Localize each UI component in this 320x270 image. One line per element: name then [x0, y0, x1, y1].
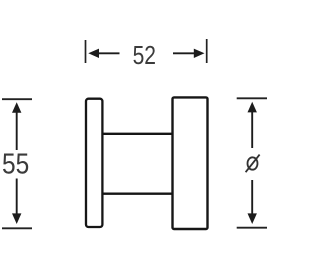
svg-text:52: 52	[133, 41, 156, 71]
knob body rectangle (side view)	[173, 97, 208, 229]
wire dimension 55 up arrow	[12, 102, 21, 150]
diameter dimension down arrow	[248, 180, 257, 224]
wire dimension 52 right arrow	[173, 49, 205, 58]
wire stem bottom line	[102, 192, 173, 194]
wire dimension 52 left arrow	[88, 49, 119, 58]
diameter dimension top extension tick	[237, 97, 267, 99]
diameter dimension up arrow	[248, 102, 257, 148]
wire dimension 52 left extension tick	[85, 40, 87, 63]
wire dimension 52 right extension tick	[206, 39, 208, 63]
diameter dimension bottom extension tick	[237, 227, 267, 229]
wire dimension 55 down arrow	[12, 179, 21, 225]
svg-text:55: 55	[2, 147, 29, 179]
wire stem top line	[102, 133, 173, 135]
rose plate rectangle (side view)	[86, 99, 102, 227]
wire dimension 55 bottom extension tick	[2, 227, 32, 229]
label diameter symbol	[246, 155, 260, 173]
wire dimension 55 top extension tick	[2, 98, 32, 100]
